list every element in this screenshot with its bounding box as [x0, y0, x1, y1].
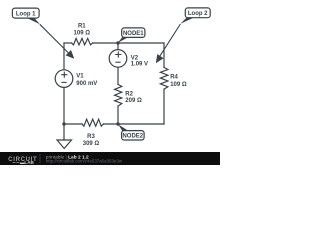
svg-text:900 mV: 900 mV [76, 81, 97, 87]
svg-text:Loop 1: Loop 1 [16, 11, 36, 17]
svg-text:NODE1: NODE1 [123, 31, 144, 37]
svg-text:R1: R1 [78, 24, 86, 30]
svg-text:109 Ω: 109 Ω [74, 31, 91, 37]
svg-text:109 Ω: 109 Ω [170, 82, 187, 88]
svg-text:∼∼▬LAB: ∼∼▬LAB [12, 160, 34, 165]
svg-text:R3: R3 [87, 134, 95, 140]
svg-text:V1: V1 [76, 74, 84, 80]
svg-text:NODE2: NODE2 [122, 134, 143, 140]
svg-text:309 Ω: 309 Ω [83, 141, 100, 147]
svg-text:1.09 V: 1.09 V [131, 61, 148, 67]
svg-text:209 Ω: 209 Ω [125, 98, 142, 104]
svg-text:http://circuitlab.com/c4e537a5: http://circuitlab.com/c4e537a5a353e3w [46, 159, 123, 164]
svg-text:Loop 2: Loop 2 [188, 11, 208, 17]
svg-text:R4: R4 [170, 74, 178, 80]
svg-text:R2: R2 [125, 92, 133, 98]
